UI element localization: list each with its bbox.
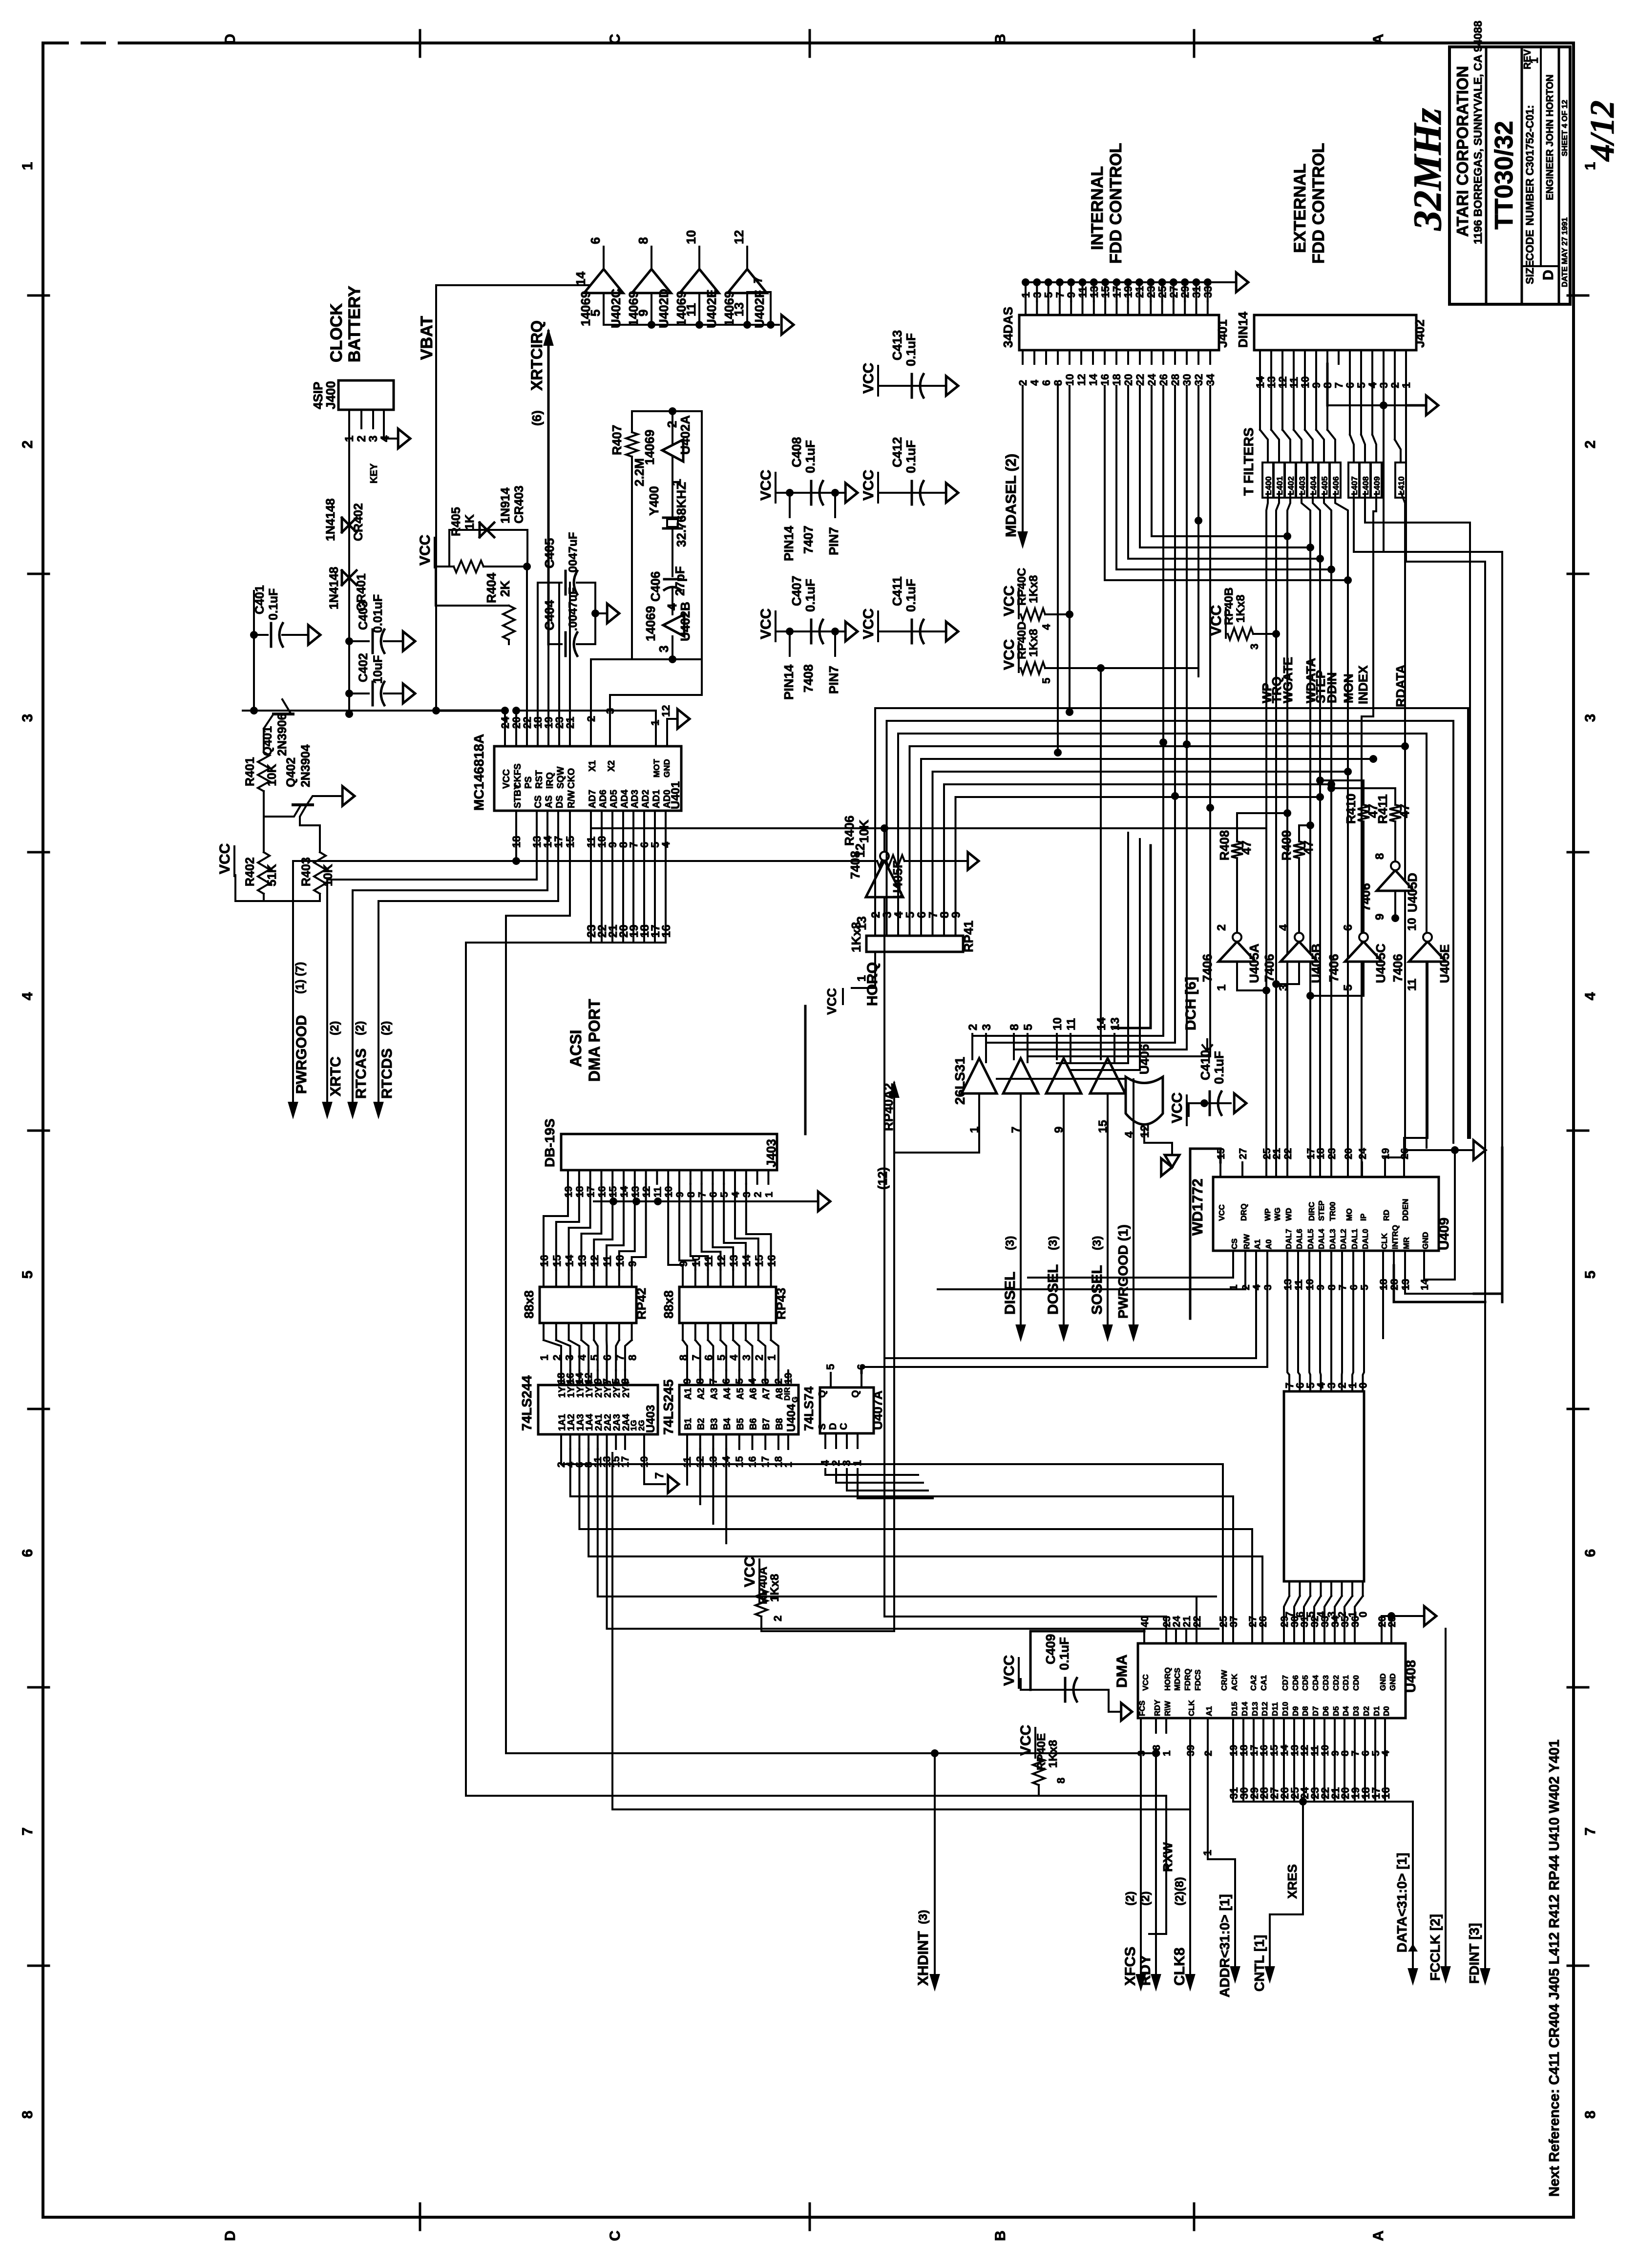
svg-text:VCC: VCC	[1218, 1204, 1226, 1221]
svg-text:0.1uF: 0.1uF	[903, 333, 918, 366]
svg-text:XRTCIRQ: XRTCIRQ	[528, 320, 546, 391]
svg-text:C403: C403	[357, 601, 370, 630]
svg-text:1: 1	[783, 1462, 794, 1468]
svg-text:RP42: RP42	[634, 1288, 649, 1320]
svg-text:2: 2	[355, 436, 368, 442]
svg-text:0.01uF: 0.01uF	[371, 594, 385, 633]
svg-text:1: 1	[1528, 58, 1540, 63]
svg-text:A4: A4	[722, 1387, 733, 1400]
svg-text:Y400: Y400	[647, 486, 661, 516]
svg-text:6: 6	[1582, 1549, 1598, 1557]
svg-text:R401: R401	[243, 757, 257, 786]
svg-text:13: 13	[576, 1255, 588, 1267]
svg-text:G: G	[791, 1397, 799, 1403]
svg-text:FCS: FCS	[1138, 1701, 1147, 1716]
svg-text:VCC: VCC	[861, 363, 877, 394]
svg-text:3: 3	[760, 1378, 771, 1384]
svg-text:7407: 7407	[801, 525, 816, 554]
svg-text:2N3904: 2N3904	[299, 744, 313, 787]
svg-text:Q: Q	[817, 1390, 828, 1398]
svg-text:5: 5	[588, 1355, 601, 1361]
svg-text:16: 16	[1380, 1787, 1392, 1799]
svg-text:U402F: U402F	[752, 290, 767, 328]
svg-text:FDD CONTROL: FDD CONTROL	[1309, 143, 1328, 264]
svg-text:J403: J403	[764, 1139, 778, 1167]
svg-text:IP: IP	[1360, 1214, 1368, 1221]
svg-text:U408: U408	[1403, 1660, 1418, 1693]
svg-text:SHEET 4 OF 12: SHEET 4 OF 12	[1561, 100, 1569, 156]
svg-text:8: 8	[695, 1378, 706, 1384]
svg-text:U402C: U402C	[609, 289, 623, 328]
svg-text:D: D	[828, 1423, 839, 1430]
svg-text:U405C: U405C	[1373, 944, 1388, 983]
svg-text:CD2: CD2	[1332, 1675, 1341, 1691]
svg-text:WP: WP	[1264, 1208, 1272, 1221]
svg-text:AD7: AD7	[588, 790, 598, 808]
svg-text:R404: R404	[484, 572, 499, 603]
svg-text:B: B	[992, 2230, 1008, 2241]
svg-text:1Kx8: 1Kx8	[768, 1574, 781, 1602]
svg-text:J401: J401	[1215, 319, 1230, 348]
svg-text:2: 2	[753, 1192, 764, 1197]
svg-text:PIN14: PIN14	[781, 525, 796, 561]
svg-text:D8: D8	[1302, 1706, 1310, 1716]
svg-text:R402: R402	[243, 857, 257, 886]
svg-text:B5: B5	[735, 1418, 746, 1430]
svg-text:AD5: AD5	[609, 790, 619, 808]
svg-text:1: 1	[1161, 1750, 1173, 1756]
svg-text:MOT: MOT	[652, 759, 661, 777]
svg-text:16: 16	[660, 924, 673, 938]
svg-text:RDY: RDY	[1154, 1700, 1162, 1716]
svg-text:Q402: Q402	[284, 757, 298, 787]
svg-text:7: 7	[1333, 382, 1345, 388]
svg-text:RP41: RP41	[961, 921, 976, 952]
svg-text:1: 1	[851, 1460, 863, 1466]
svg-text:ADDR<31:0> [1]: ADDR<31:0> [1]	[1217, 1894, 1232, 1997]
svg-text:10: 10	[684, 230, 698, 244]
svg-text:GND: GND	[1389, 1673, 1397, 1691]
svg-text:D13: D13	[1251, 1702, 1260, 1716]
svg-text:12: 12	[660, 705, 672, 717]
svg-text:TR00: TR00	[1329, 1202, 1337, 1221]
svg-text:VCC: VCC	[217, 843, 233, 874]
svg-text:(2): (2)	[354, 1021, 367, 1035]
svg-text:2K: 2K	[498, 581, 512, 597]
svg-text:RP43: RP43	[774, 1288, 788, 1320]
svg-text:PWRGOOD (1): PWRGOOD (1)	[1115, 1224, 1131, 1319]
svg-text:7406: 7406	[1200, 954, 1215, 982]
svg-text:VCC: VCC	[861, 609, 877, 639]
svg-text:VCC: VCC	[1001, 1655, 1017, 1686]
svg-text:U405D: U405D	[1405, 873, 1420, 912]
svg-text:4: 4	[20, 992, 36, 1000]
svg-text:RST: RST	[534, 770, 545, 789]
svg-text:23: 23	[1326, 1148, 1338, 1159]
svg-text:MR: MR	[1403, 1237, 1411, 1249]
svg-text:U409: U409	[1436, 1218, 1451, 1250]
svg-text:21: 21	[1271, 1148, 1282, 1159]
svg-text:U405E: U405E	[1437, 945, 1452, 984]
svg-text:21: 21	[1181, 1616, 1193, 1627]
svg-text:1Kx8: 1Kx8	[1027, 629, 1040, 657]
svg-text:7: 7	[752, 277, 765, 283]
svg-text:GND: GND	[1422, 1232, 1430, 1249]
svg-text:16: 16	[538, 1255, 550, 1267]
svg-text:1: 1	[1582, 162, 1598, 170]
svg-text:4: 4	[1582, 992, 1598, 1000]
svg-text:12: 12	[588, 1255, 601, 1267]
svg-text:CS: CS	[1231, 1238, 1239, 1249]
svg-text:6: 6	[1040, 380, 1052, 386]
svg-text:B6: B6	[749, 1418, 759, 1430]
svg-text:14: 14	[1087, 374, 1099, 386]
svg-text:RD: RD	[1383, 1210, 1391, 1221]
svg-text:DAL4: DAL4	[1318, 1229, 1326, 1249]
svg-text:C408: C408	[789, 437, 804, 467]
svg-text:0.1uF: 0.1uF	[267, 588, 280, 620]
svg-text:XFCS: XFCS	[1122, 1947, 1138, 1986]
svg-text:(3): (3)	[1004, 1236, 1017, 1250]
svg-text:10K: 10K	[857, 819, 871, 843]
svg-text:27pF: 27pF	[672, 566, 687, 596]
svg-text:4/12: 4/12	[1584, 101, 1621, 162]
svg-text:(3): (3)	[1091, 1236, 1104, 1250]
svg-text:(2): (2)	[1139, 1891, 1152, 1906]
svg-text:CR/W: CR/W	[1220, 1669, 1229, 1691]
svg-text:26LS31: 26LS31	[952, 1057, 967, 1105]
svg-text:0.1uF: 0.1uF	[803, 440, 818, 473]
svg-text:DRQ: DRQ	[1240, 1203, 1248, 1221]
svg-text:D3: D3	[1352, 1706, 1361, 1716]
svg-text:14: 14	[740, 1255, 753, 1267]
svg-text:D: D	[222, 2230, 238, 2241]
svg-text:R405: R405	[449, 507, 463, 536]
svg-text:1: 1	[766, 1355, 778, 1361]
svg-text:A1: A1	[1254, 1239, 1262, 1249]
svg-text:R407: R407	[609, 425, 624, 455]
svg-text:J402: J402	[1412, 319, 1427, 348]
svg-text:DATA<31:0> [1]: DATA<31:0> [1]	[1394, 1853, 1409, 1953]
svg-text:X2: X2	[607, 760, 617, 772]
svg-text:14069: 14069	[642, 430, 657, 465]
svg-text:34: 34	[1204, 374, 1217, 386]
svg-text:MON: MON	[1341, 673, 1356, 703]
svg-text:1K: 1K	[463, 514, 477, 530]
svg-text:17: 17	[620, 1456, 631, 1468]
svg-text:RTCDS: RTCDS	[379, 1049, 395, 1099]
svg-text:KEY: KEY	[369, 463, 379, 483]
svg-text:CLK8: CLK8	[1172, 1948, 1188, 1986]
svg-text:10: 10	[1064, 374, 1076, 386]
svg-text:3: 3	[20, 714, 36, 722]
svg-text:12: 12	[1138, 1125, 1152, 1138]
svg-text:47: 47	[1301, 840, 1316, 855]
svg-text:8: 8	[1008, 1024, 1021, 1030]
svg-text:15: 15	[753, 1255, 765, 1267]
svg-text:B1: B1	[683, 1418, 693, 1430]
svg-text:U403: U403	[644, 1405, 657, 1433]
svg-text:DATE MAY 27 1991: DATE MAY 27 1991	[1561, 217, 1569, 287]
svg-text:16: 16	[747, 1456, 758, 1468]
svg-text:0.1uF: 0.1uF	[903, 440, 918, 473]
svg-text:(2): (2)	[379, 1021, 393, 1035]
svg-text:D0: D0	[1383, 1706, 1391, 1716]
svg-text:DAL7: DAL7	[1285, 1229, 1293, 1249]
svg-text:D14: D14	[1241, 1702, 1249, 1716]
svg-text:8: 8	[20, 2111, 36, 2119]
svg-text:22: 22	[1282, 1148, 1294, 1159]
svg-text:D: D	[222, 34, 238, 44]
svg-text:3: 3	[367, 436, 380, 442]
svg-text:B7: B7	[761, 1418, 772, 1430]
svg-text:U405A: U405A	[1247, 944, 1261, 983]
svg-text:24: 24	[1171, 1616, 1182, 1627]
svg-text:DAL2: DAL2	[1340, 1229, 1348, 1249]
svg-text:7408: 7408	[801, 664, 816, 693]
svg-text:CD3: CD3	[1322, 1675, 1330, 1691]
svg-text:15: 15	[734, 1456, 745, 1468]
svg-text:0.1uF: 0.1uF	[903, 579, 918, 612]
svg-text:1: 1	[855, 975, 868, 982]
svg-text:4: 4	[1277, 924, 1290, 931]
svg-text:AD6: AD6	[598, 790, 609, 808]
svg-text:INDEX: INDEX	[1356, 665, 1370, 704]
svg-text:B3: B3	[709, 1418, 719, 1430]
svg-text:VCC: VCC	[502, 769, 512, 789]
svg-text:20: 20	[1343, 1148, 1354, 1159]
svg-text:DMA: DMA	[1114, 1655, 1130, 1688]
svg-text:VCC: VCC	[417, 535, 433, 566]
svg-text:11: 11	[1065, 1018, 1078, 1030]
svg-text:ACK: ACK	[1231, 1674, 1239, 1691]
svg-text:2Y4: 2Y4	[621, 1381, 631, 1398]
svg-text:2: 2	[1215, 924, 1228, 931]
svg-text:8: 8	[1373, 853, 1386, 860]
svg-text:8: 8	[1055, 1778, 1067, 1784]
svg-text:1: 1	[1201, 1850, 1214, 1856]
svg-text:40: 40	[1139, 1616, 1151, 1627]
svg-text:CD7: CD7	[1281, 1675, 1290, 1691]
svg-text:VCC: VCC	[1169, 1092, 1185, 1123]
svg-text:C: C	[607, 2230, 623, 2241]
svg-text:R/W: R/W	[567, 790, 577, 808]
svg-text:RP40E: RP40E	[1035, 1733, 1048, 1770]
svg-text:19: 19	[1380, 1148, 1391, 1159]
svg-text:21: 21	[564, 717, 576, 729]
svg-text:DIN14: DIN14	[1236, 312, 1250, 348]
svg-text:FDRQ: FDRQ	[1184, 1669, 1192, 1691]
svg-text:7406: 7406	[1262, 954, 1277, 982]
svg-text:2G: 2G	[637, 1420, 646, 1431]
svg-text:CLK: CLK	[1381, 1233, 1389, 1249]
svg-text:CKO: CKO	[567, 768, 577, 789]
svg-text:U405B: U405B	[1309, 944, 1323, 983]
svg-text:6: 6	[20, 1549, 36, 1557]
svg-text:4: 4	[747, 1378, 758, 1384]
svg-text:VCC: VCC	[742, 1556, 758, 1587]
svg-text:2: 2	[966, 1024, 980, 1030]
svg-text:ACSI: ACSI	[567, 1030, 585, 1067]
svg-text:PWRGOOD: PWRGOOD	[294, 1015, 310, 1094]
svg-text:ATARI CORPORATION: ATARI CORPORATION	[1453, 66, 1471, 237]
svg-text:4: 4	[576, 1354, 588, 1361]
svg-text:11: 11	[703, 1256, 715, 1267]
svg-text:DAL6: DAL6	[1296, 1229, 1304, 1249]
svg-text:R410: R410	[1344, 794, 1358, 824]
svg-text:10: 10	[690, 1255, 702, 1267]
svg-text:2: 2	[753, 1355, 765, 1361]
svg-text:RXW: RXW	[1160, 1842, 1175, 1872]
svg-text:10: 10	[1406, 918, 1419, 931]
svg-text:CNTL [1]: CNTL [1]	[1252, 1935, 1267, 1992]
svg-text:SIZE: SIZE	[1524, 260, 1536, 284]
svg-text:7408: 7408	[848, 851, 862, 879]
svg-text:3: 3	[1248, 644, 1260, 650]
svg-text:RP40D: RP40D	[1015, 622, 1029, 659]
svg-text:WG: WG	[1274, 1207, 1282, 1221]
svg-text:1: 1	[1215, 985, 1228, 991]
svg-text:D6: D6	[1322, 1706, 1330, 1716]
svg-text:13: 13	[728, 1255, 740, 1267]
svg-text:1N4148: 1N4148	[327, 567, 341, 609]
svg-text:VCC: VCC	[1018, 1725, 1034, 1756]
svg-text:D4: D4	[1342, 1706, 1350, 1716]
svg-text:B8: B8	[775, 1418, 785, 1430]
svg-text:14069: 14069	[674, 291, 689, 326]
svg-text:1N914: 1N914	[499, 487, 512, 524]
svg-text:(2): (2)	[328, 1021, 341, 1035]
svg-text:14069: 14069	[722, 291, 736, 326]
svg-text:FDINT [3]: FDINT [3]	[1467, 1923, 1482, 1984]
svg-text:DAL3: DAL3	[1329, 1229, 1337, 1249]
svg-text:RDY: RDY	[1137, 1955, 1154, 1986]
svg-text:C409: C409	[1043, 1634, 1058, 1664]
svg-text:1: 1	[763, 1192, 775, 1197]
svg-text:26: 26	[1157, 374, 1170, 386]
svg-text:AD4: AD4	[620, 790, 630, 808]
svg-text:5: 5	[734, 1378, 745, 1384]
svg-text:R411: R411	[1375, 794, 1390, 824]
svg-text:34DAS: 34DAS	[1001, 307, 1015, 348]
svg-text:J400: J400	[323, 381, 338, 409]
svg-text:CA2: CA2	[1250, 1675, 1258, 1691]
svg-text:14069: 14069	[643, 606, 658, 641]
svg-text:AD0: AD0	[662, 790, 672, 808]
svg-text:32.768KHZ: 32.768KHZ	[674, 482, 689, 547]
svg-text:C411: C411	[890, 576, 904, 606]
svg-text:(3): (3)	[917, 1910, 930, 1924]
svg-text:22: 22	[1134, 374, 1146, 386]
svg-text:5: 5	[1022, 1024, 1035, 1030]
svg-text:B2: B2	[696, 1418, 707, 1430]
svg-text:7406: 7406	[1358, 883, 1373, 911]
svg-text:5: 5	[824, 1364, 837, 1370]
svg-text:AS: AS	[544, 796, 554, 808]
svg-text:C: C	[607, 34, 623, 44]
svg-text:17: 17	[760, 1456, 771, 1468]
svg-text:TT030/32: TT030/32	[1490, 121, 1518, 230]
svg-text:R409: R409	[1279, 830, 1294, 861]
svg-text:S: S	[817, 1424, 828, 1430]
svg-text:DDIN: DDIN	[1324, 672, 1339, 703]
svg-text:CD0: CD0	[1352, 1675, 1361, 1691]
svg-text:D1: D1	[1373, 1706, 1381, 1716]
svg-text:DS: DS	[555, 796, 565, 808]
svg-text:CD5: CD5	[1302, 1675, 1310, 1691]
svg-text:C412: C412	[890, 437, 904, 467]
svg-text:10: 10	[614, 1255, 626, 1267]
svg-text:0.1uF: 0.1uF	[1212, 1051, 1226, 1084]
svg-text:2: 2	[585, 716, 597, 722]
svg-text:DMA PORT: DMA PORT	[586, 999, 603, 1082]
svg-text:0.1uF: 0.1uF	[1057, 1637, 1071, 1670]
svg-text:U404: U404	[785, 1404, 798, 1432]
svg-text:U402D: U402D	[656, 289, 671, 328]
svg-text:88x8: 88x8	[522, 1290, 536, 1319]
svg-text:74LS74: 74LS74	[801, 1386, 816, 1431]
svg-text:7406: 7406	[1390, 954, 1405, 982]
svg-text:A3: A3	[709, 1388, 719, 1400]
svg-text:A: A	[1370, 2230, 1386, 2241]
svg-text:(1) (7): (1) (7)	[294, 962, 307, 994]
svg-text:MO: MO	[1345, 1208, 1354, 1221]
svg-text:9: 9	[1373, 914, 1386, 920]
svg-text:74LS245: 74LS245	[661, 1379, 676, 1435]
svg-text:9: 9	[677, 1261, 690, 1267]
svg-text:MDCS: MDCS	[1174, 1668, 1182, 1691]
svg-text:47: 47	[1239, 840, 1254, 855]
svg-text:B4: B4	[722, 1418, 733, 1430]
svg-text:CODE: CODE	[1524, 230, 1536, 261]
svg-text:U402E: U402E	[704, 290, 719, 329]
svg-text:16: 16	[1099, 374, 1111, 386]
svg-text:9: 9	[627, 1261, 639, 1267]
svg-text:D11: D11	[1271, 1702, 1280, 1716]
svg-text:1196 BORREGAS, SUNNYVALE, CA 9: 1196 BORREGAS, SUNNYVALE, CA 94088	[1471, 21, 1484, 244]
svg-text:30: 30	[1181, 374, 1193, 386]
svg-text:GND: GND	[662, 759, 672, 777]
svg-text:C405: C405	[542, 538, 557, 568]
svg-text:74LS244: 74LS244	[519, 1375, 534, 1431]
svg-text:DAL5: DAL5	[1307, 1229, 1315, 1249]
svg-text:11: 11	[1406, 979, 1419, 991]
svg-text:VCC: VCC	[758, 609, 774, 639]
svg-text:0: 0	[1357, 1383, 1369, 1388]
svg-text:.0047uF: .0047uF	[567, 588, 580, 631]
svg-text:8: 8	[1582, 2111, 1598, 2119]
svg-text:CLOCK: CLOCK	[327, 303, 346, 362]
svg-text:FDD CONTROL: FDD CONTROL	[1107, 143, 1125, 264]
svg-text:D9: D9	[1292, 1706, 1300, 1716]
svg-text:VCC: VCC	[758, 470, 774, 501]
svg-text:2N3906: 2N3906	[275, 713, 289, 756]
svg-text:PIN14: PIN14	[781, 664, 796, 700]
svg-text:6: 6	[721, 1378, 732, 1384]
svg-text:A7: A7	[761, 1388, 772, 1400]
svg-text:18: 18	[1111, 374, 1123, 386]
svg-text:5: 5	[20, 1271, 36, 1279]
svg-text:RP40C: RP40C	[1015, 568, 1029, 606]
svg-text:(6): (6)	[529, 410, 544, 426]
svg-text:C413: C413	[890, 330, 904, 360]
svg-text:3: 3	[1582, 714, 1598, 722]
svg-text:R408: R408	[1217, 830, 1232, 861]
svg-text:4: 4	[1029, 379, 1041, 386]
svg-text:CD1: CD1	[1342, 1675, 1350, 1691]
svg-text:AD2: AD2	[641, 790, 651, 808]
svg-text:.0047uF: .0047uF	[567, 532, 580, 576]
